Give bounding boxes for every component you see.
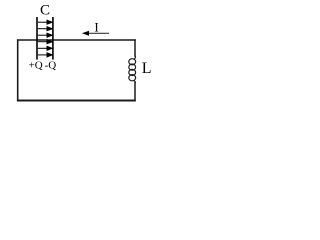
wire right lower: [134, 82, 136, 101]
capacitor C left plate: [36, 17, 38, 60]
wire top: [17, 39, 136, 41]
wire right upper: [134, 39, 136, 57]
svg-text:+Q: +Q: [29, 59, 43, 71]
wire left: [17, 39, 19, 101]
svg-text:I: I: [94, 19, 98, 34]
field arrows between plates: [38, 20, 52, 57]
svg-text:C: C: [40, 3, 50, 19]
capacitor C right plate: [52, 17, 54, 60]
svg-text:L: L: [142, 60, 152, 77]
svg-text:-Q: -Q: [45, 59, 57, 71]
inductor L coil: [129, 56, 136, 84]
wire bottom: [17, 100, 136, 102]
current arrow I: [86, 32, 109, 34]
